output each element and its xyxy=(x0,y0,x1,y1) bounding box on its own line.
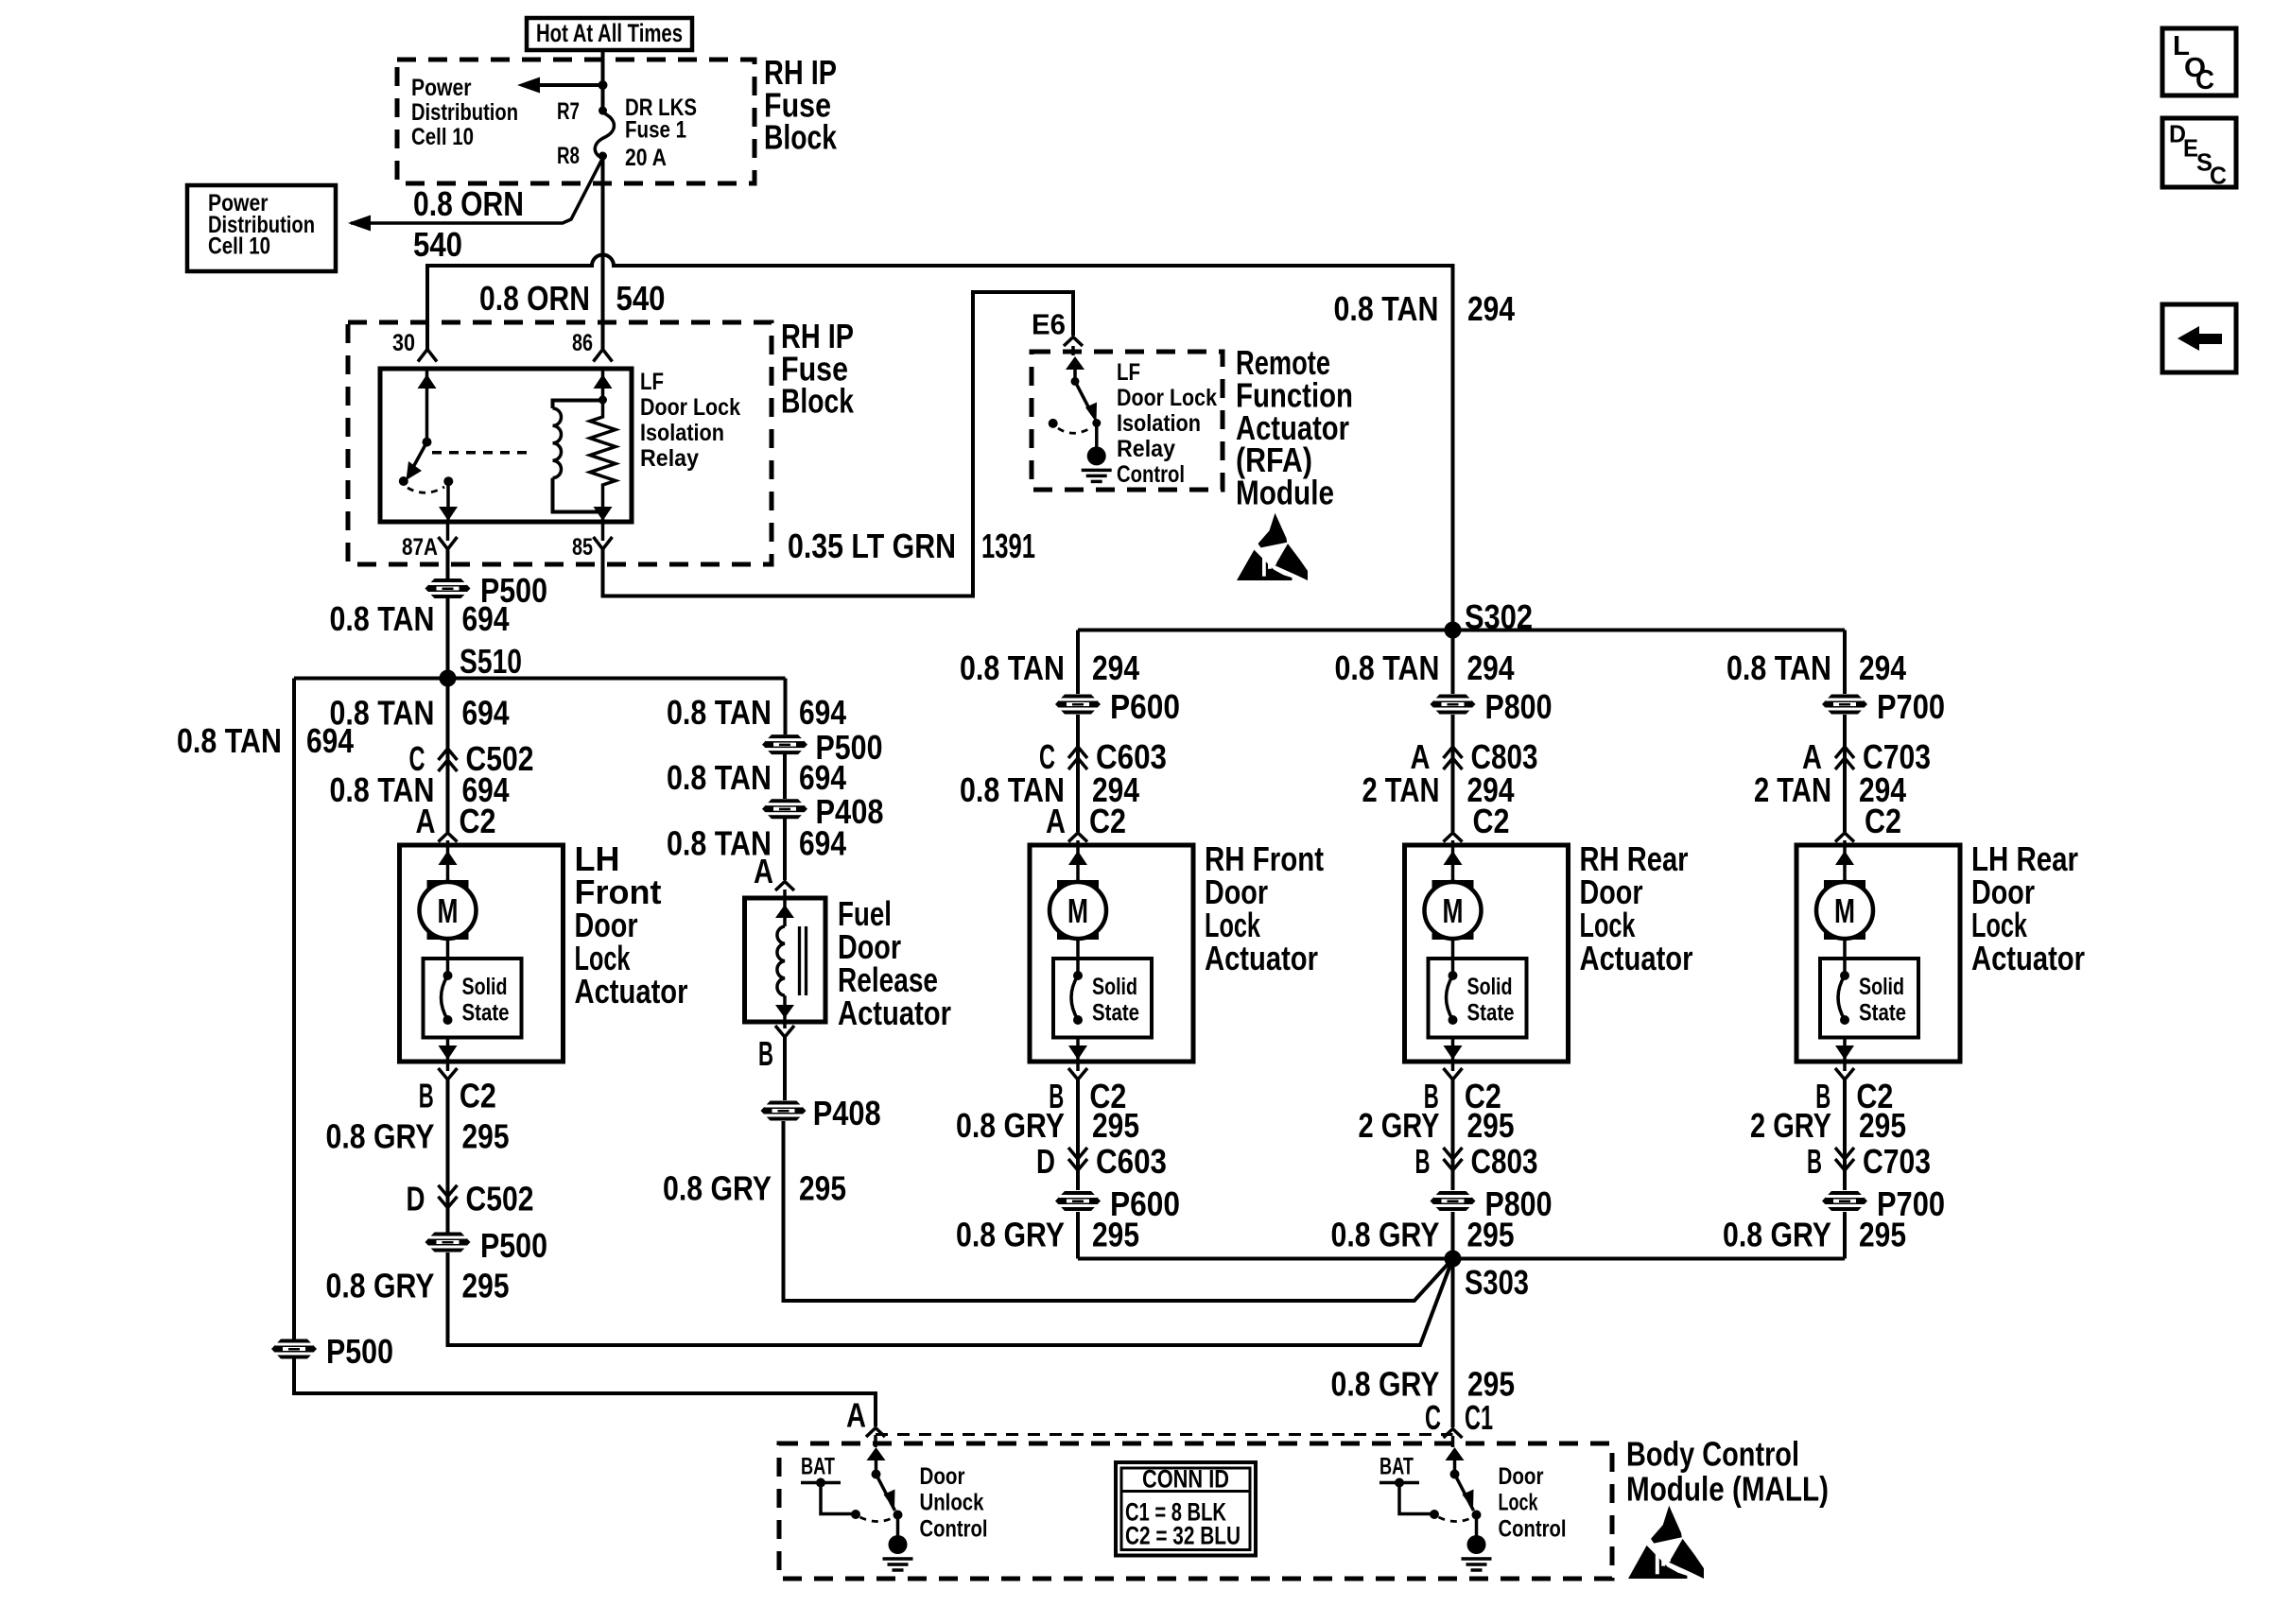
svg-text:M: M xyxy=(1443,891,1464,930)
wire out of actuator xyxy=(446,1037,450,1062)
svg-text:694: 694 xyxy=(462,599,510,638)
svg-text:294: 294 xyxy=(1092,648,1139,687)
actuator box RH Front Door Lock Actuator Door Lock Actuator xyxy=(1030,845,1193,1062)
pin A connector xyxy=(866,1428,885,1438)
svg-text:295: 295 xyxy=(1467,1106,1515,1145)
relay box LF Door Lock Isolation Relay xyxy=(380,369,632,522)
svg-text:Solid: Solid xyxy=(1467,974,1513,1000)
wire 0.8 GRY 295 to bus xyxy=(1451,1212,1455,1259)
svg-text:A: A xyxy=(416,802,436,840)
svg-text:694: 694 xyxy=(799,693,846,732)
wire 0.35 LT GRN 1391 relay pin 85 to RFA E6 xyxy=(603,292,1074,596)
svg-text:Hot At All Times: Hot At All Times xyxy=(536,19,683,47)
connector P700 xyxy=(1822,1191,1867,1211)
svg-text:Door Lock: Door Lock xyxy=(640,394,740,421)
svg-text:Control: Control xyxy=(1117,461,1185,488)
svg-text:0.8 TAN: 0.8 TAN xyxy=(177,721,282,760)
svg-text:0.8 TAN: 0.8 TAN xyxy=(960,648,1065,687)
solenoid core bar xyxy=(798,926,801,995)
switch Door Unlock Control xyxy=(867,1447,886,1460)
switch Door Lock Control xyxy=(1446,1447,1465,1460)
junction dot feed/PD-cell tap xyxy=(599,80,608,90)
ESD sensitive device symbol (RFA) xyxy=(1258,513,1288,548)
dashed box RH IP Fuse Block (relay) xyxy=(348,322,772,564)
svg-text:C: C xyxy=(2210,162,2227,190)
svg-text:0.8 GRY: 0.8 GRY xyxy=(326,1266,435,1304)
svg-text:Body Control: Body Control xyxy=(1626,1435,1799,1474)
svg-text:M: M xyxy=(1067,891,1088,930)
relay actuation dashed link xyxy=(432,451,533,455)
pin B connector (fuel door) xyxy=(775,1026,794,1037)
pin connector xyxy=(1068,833,1087,842)
DESC reference box xyxy=(2162,118,2236,187)
svg-text:C2: C2 xyxy=(1089,802,1126,840)
connector P500 xyxy=(425,1233,471,1253)
connector P500 (fuel door) xyxy=(762,734,807,754)
wire 0.8 GRY 295 from LH front actuator xyxy=(446,1080,450,1233)
svg-text:0.8 GRY: 0.8 GRY xyxy=(1331,1215,1440,1253)
svg-text:P500: P500 xyxy=(480,1226,547,1265)
relay switch blade xyxy=(412,442,427,469)
wire 0.8 GRY 295 from fuel door release xyxy=(783,1037,787,1100)
wire into actuator xyxy=(1843,845,1847,880)
svg-text:Distribution: Distribution xyxy=(411,99,518,126)
connector P408 xyxy=(761,1101,807,1121)
svg-text:0.8 TAN: 0.8 TAN xyxy=(1334,289,1439,328)
svg-text:0.8 ORN: 0.8 ORN xyxy=(413,184,524,223)
wire 0.8 TAN 694 to LH front actuator xyxy=(446,598,450,832)
svg-text:Actuator: Actuator xyxy=(1205,939,1318,977)
svg-text:694: 694 xyxy=(799,758,846,797)
svg-text:694: 694 xyxy=(799,824,846,863)
svg-text:2 GRY: 2 GRY xyxy=(1359,1106,1440,1145)
svg-text:P800: P800 xyxy=(1485,687,1553,726)
back arrow xyxy=(2178,326,2199,351)
svg-text:E6: E6 xyxy=(1032,307,1066,340)
pin B connector xyxy=(1068,1068,1087,1080)
svg-text:R8: R8 xyxy=(557,143,580,169)
svg-text:LF: LF xyxy=(640,369,664,395)
wire into actuator xyxy=(446,845,450,880)
wire 0.8 ORN 540 fuse to relay pin 86 xyxy=(601,156,605,349)
svg-text:0.35 LT GRN: 0.35 LT GRN xyxy=(788,527,956,565)
svg-text:294: 294 xyxy=(1467,648,1515,687)
dashed box RH IP Fuse Block (upper) xyxy=(397,60,755,183)
svg-text:B: B xyxy=(1415,1142,1431,1181)
svg-text:A: A xyxy=(846,1396,866,1435)
svg-text:Cell 10: Cell 10 xyxy=(411,124,474,150)
wire NO contact to pin 87A xyxy=(446,481,450,522)
svg-text:C2: C2 xyxy=(1473,802,1510,840)
svg-text:0.8 GRY: 0.8 GRY xyxy=(956,1215,1065,1253)
svg-text:M: M xyxy=(1834,891,1855,930)
wire 0.8 GRY 295 to bus xyxy=(1843,1212,1847,1259)
wire motor to solid state xyxy=(446,939,450,976)
wire motor to solid state xyxy=(1451,939,1455,976)
svg-text:B: B xyxy=(758,1034,773,1073)
pin connector xyxy=(1835,833,1854,842)
svg-text:P700: P700 xyxy=(1877,687,1945,726)
wire S510 bus xyxy=(294,677,786,681)
svg-text:Power: Power xyxy=(411,75,472,101)
wire relay to pin 87A xyxy=(446,522,450,541)
svg-text:State: State xyxy=(1092,1000,1139,1027)
svg-text:294: 294 xyxy=(1859,648,1906,687)
svg-text:Isolation: Isolation xyxy=(1117,410,1201,437)
svg-text:State: State xyxy=(1859,1000,1906,1027)
svg-text:P408: P408 xyxy=(813,1094,881,1132)
svg-text:1391: 1391 xyxy=(981,527,1035,565)
svg-text:LF: LF xyxy=(1117,359,1140,386)
svg-text:Door: Door xyxy=(920,1463,965,1490)
relay switch throw arc xyxy=(408,487,444,492)
splice S510 xyxy=(440,670,457,687)
svg-text:Block: Block xyxy=(764,118,838,157)
svg-text:D: D xyxy=(1036,1142,1055,1181)
pin C connector xyxy=(1444,1429,1463,1439)
svg-text:0.8 TAN: 0.8 TAN xyxy=(1335,648,1440,687)
RFA switch NC contact xyxy=(1049,419,1058,428)
wire S302 bus to connector xyxy=(1451,631,1455,695)
svg-text:A: A xyxy=(1046,802,1066,840)
relay NC contact xyxy=(399,476,408,486)
pin B connector xyxy=(439,1068,458,1080)
svg-text:Actuator: Actuator xyxy=(1580,939,1693,977)
svg-text:S510: S510 xyxy=(460,642,522,681)
wire relay to pin 85 xyxy=(601,522,605,541)
svg-text:C2 = 32 BLU: C2 = 32 BLU xyxy=(1125,1522,1241,1550)
connector P600 xyxy=(1055,695,1101,715)
svg-text:295: 295 xyxy=(462,1117,510,1156)
svg-text:295: 295 xyxy=(1092,1215,1139,1253)
svg-text:C1: C1 xyxy=(1465,1398,1493,1437)
actuator box RH Rear Door Lock Actuator Door Lock Actuator xyxy=(1405,845,1569,1062)
svg-text:Module (MALL): Module (MALL) xyxy=(1626,1470,1829,1509)
svg-text:294: 294 xyxy=(1467,289,1515,328)
wire S510 to fuel door release xyxy=(784,679,788,735)
svg-text:20 A: 20 A xyxy=(625,145,667,171)
svg-text:S302: S302 xyxy=(1465,597,1533,636)
connector P800 xyxy=(1431,1191,1476,1211)
svg-text:Control: Control xyxy=(1499,1515,1567,1542)
ground (BCM switch) xyxy=(889,1535,908,1554)
wire 0.8 GRY 295 S303 to BCM pin C xyxy=(1451,1259,1455,1428)
connector P500 (87A feed) xyxy=(425,579,471,598)
ground (RFA internal) xyxy=(1087,446,1106,465)
svg-text:295: 295 xyxy=(1092,1106,1139,1145)
svg-text:295: 295 xyxy=(1467,1215,1515,1253)
svg-text:Unlock: Unlock xyxy=(920,1490,984,1516)
svg-text:C2: C2 xyxy=(460,1076,496,1114)
svg-text:Solid: Solid xyxy=(1092,974,1137,1000)
wire out of actuator xyxy=(1843,1037,1847,1062)
svg-text:Cell 10: Cell 10 xyxy=(208,233,270,260)
solid state switch box xyxy=(1053,959,1152,1038)
svg-text:0.8 ORN: 0.8 ORN xyxy=(479,279,590,318)
wire S302 bus to connector xyxy=(1076,631,1080,695)
svg-text:C2: C2 xyxy=(460,802,496,840)
wire into actuator xyxy=(1076,845,1080,880)
label box Hot At All Times xyxy=(527,18,692,50)
connector C1 dashed boundary xyxy=(876,1433,1453,1436)
svg-text:State: State xyxy=(462,1000,510,1027)
svg-text:694: 694 xyxy=(306,721,354,760)
svg-text:C803: C803 xyxy=(1471,1142,1538,1181)
svg-text:Actuator: Actuator xyxy=(838,993,951,1032)
connector P800 xyxy=(1431,695,1476,715)
actuator box Fuel Door Release Actuator xyxy=(745,898,826,1022)
wire fuse feed from Hot At All Times xyxy=(601,50,605,111)
svg-text:2 TAN: 2 TAN xyxy=(1754,770,1831,809)
wire 0.8 GRY 295 bus S303 xyxy=(1078,1257,1845,1261)
svg-text:Control: Control xyxy=(920,1515,988,1542)
pin B connector xyxy=(1444,1068,1463,1080)
svg-text:Relay: Relay xyxy=(640,445,699,472)
dashed box Remote Function Actuator (RFA) Module xyxy=(1032,352,1223,490)
motor M xyxy=(1057,880,1099,894)
connector P500 (left branch) xyxy=(271,1339,317,1359)
box Power Distribution Cell 10 xyxy=(187,185,336,271)
fuse DR LKS Fuse 1 20 A xyxy=(599,107,607,115)
svg-text:295: 295 xyxy=(799,1168,846,1207)
svg-text:0.8 GRY: 0.8 GRY xyxy=(326,1117,435,1156)
wire S302 bus to connector xyxy=(1843,631,1847,695)
svg-text:C: C xyxy=(1425,1398,1441,1437)
svg-text:295: 295 xyxy=(1859,1106,1906,1145)
svg-text:295: 295 xyxy=(462,1266,510,1304)
relay switch common pole (pin 30) xyxy=(425,369,429,442)
svg-text:540: 540 xyxy=(413,225,462,264)
svg-text:B: B xyxy=(1807,1142,1822,1181)
svg-text:0.8 TAN: 0.8 TAN xyxy=(1726,648,1831,687)
wire pin30 to S302 with hop over fuse wire xyxy=(427,255,1453,631)
switch throw arc xyxy=(1439,1517,1473,1522)
svg-text:0.8 GRY: 0.8 GRY xyxy=(663,1168,772,1207)
svg-text:B: B xyxy=(419,1076,434,1114)
RFA relay control switch xyxy=(1066,356,1084,370)
svg-text:0.8 TAN: 0.8 TAN xyxy=(330,599,435,638)
wire into RFA module xyxy=(1071,346,1075,355)
svg-text:Actuator: Actuator xyxy=(575,972,688,1011)
arrowhead to Power Distribution Cell 10 xyxy=(517,78,540,94)
svg-text:Module: Module xyxy=(1236,474,1334,512)
relay NO contact (pin 87A) xyxy=(443,476,453,486)
fuel door release solenoid coil xyxy=(783,898,787,926)
connector P700 xyxy=(1822,695,1867,715)
svg-text:Isolation: Isolation xyxy=(640,420,724,446)
solenoid core bar xyxy=(805,926,807,995)
wire 0.8 ORN 540 to Power Distribution xyxy=(351,158,603,223)
svg-text:85: 85 xyxy=(572,534,593,561)
svg-text:Solid: Solid xyxy=(462,974,508,1000)
pin 85 connector xyxy=(594,537,613,549)
pin B connector xyxy=(1835,1068,1854,1080)
svg-text:0.8 TAN: 0.8 TAN xyxy=(667,693,772,732)
wire motor to solid state xyxy=(1843,939,1847,976)
svg-text:R7: R7 xyxy=(557,98,580,125)
svg-text:Actuator: Actuator xyxy=(1971,939,2085,977)
ground (BCM switch) xyxy=(1467,1535,1486,1554)
pin A connector xyxy=(439,833,458,842)
pin A connector xyxy=(775,882,794,891)
svg-text:540: 540 xyxy=(616,279,666,318)
svg-text:D: D xyxy=(407,1180,425,1218)
motor M xyxy=(1824,880,1865,894)
wire 0.8 GRY 295 to bus xyxy=(1076,1212,1080,1259)
svg-text:P500: P500 xyxy=(326,1332,393,1371)
svg-text:Fuse 1: Fuse 1 xyxy=(625,117,686,144)
splice S303 xyxy=(1445,1251,1462,1268)
wire into actuator xyxy=(1451,845,1455,880)
svg-text:CONN ID: CONN ID xyxy=(1142,1465,1229,1494)
svg-text:30: 30 xyxy=(392,330,415,356)
wire tap to Power Distribution (in fuse block) xyxy=(535,83,603,87)
svg-text:BAT: BAT xyxy=(1379,1453,1414,1479)
ESD sensitive device symbol (BCM) xyxy=(1651,1506,1682,1544)
motor M xyxy=(1432,880,1474,894)
wire out of actuator xyxy=(1451,1037,1455,1062)
RFA switch throw arc xyxy=(1058,427,1092,433)
svg-text:87A: 87A xyxy=(402,534,438,561)
pin E6 connector xyxy=(1064,337,1083,347)
svg-text:C502: C502 xyxy=(466,1180,534,1218)
relay coil suppression resistor xyxy=(601,369,605,406)
solid state switch box xyxy=(1820,959,1918,1038)
svg-text:0.8 TAN: 0.8 TAN xyxy=(667,758,772,797)
pin 86 connector xyxy=(594,350,613,362)
wire 0.8 GRY 295 to splice S303 xyxy=(784,1121,1453,1301)
svg-text:S303: S303 xyxy=(1465,1263,1529,1302)
svg-text:C603: C603 xyxy=(1096,1142,1167,1181)
pin 87A connector xyxy=(439,537,458,549)
svg-text:Block: Block xyxy=(781,382,855,421)
svg-text:C703: C703 xyxy=(1863,1142,1931,1181)
svg-text:0.8 GRY: 0.8 GRY xyxy=(956,1106,1065,1145)
svg-text:86: 86 xyxy=(572,330,593,356)
CONN ID table xyxy=(1116,1462,1256,1556)
actuator box LH Front Door Lock Actuator xyxy=(400,845,564,1062)
switch throw arc xyxy=(860,1517,894,1522)
svg-text:Door: Door xyxy=(1499,1463,1544,1490)
svg-text:Door Lock: Door Lock xyxy=(1117,385,1217,411)
relay coil xyxy=(553,401,603,409)
svg-text:Solid: Solid xyxy=(1859,974,1904,1000)
wire 0.8 GRY 295 to splice S303 xyxy=(448,1253,1453,1345)
connector P408 xyxy=(762,799,807,819)
svg-text:0.8 GRY: 0.8 GRY xyxy=(1331,1365,1440,1404)
wire 0.8 TAN 694 S510 to BCM pin A xyxy=(294,679,876,1427)
splice S302 xyxy=(1445,622,1462,639)
pin connector xyxy=(1444,833,1463,842)
svg-text:2 GRY: 2 GRY xyxy=(1750,1106,1831,1145)
svg-text:2 TAN: 2 TAN xyxy=(1362,770,1440,809)
motor M xyxy=(427,880,469,894)
back-arrow box xyxy=(2162,304,2236,372)
wire to RFA ground xyxy=(1095,423,1099,449)
connector P600 xyxy=(1055,1191,1101,1211)
svg-text:P600: P600 xyxy=(1110,687,1180,726)
arrowhead to Power Distribution box xyxy=(348,216,371,232)
svg-text:A: A xyxy=(754,852,773,890)
wire out of actuator xyxy=(1076,1037,1080,1062)
svg-text:0.8 GRY: 0.8 GRY xyxy=(1723,1215,1831,1253)
pin 30 connector xyxy=(418,350,437,362)
svg-text:M: M xyxy=(438,891,459,930)
svg-text:C: C xyxy=(2195,65,2214,95)
svg-text:Lock: Lock xyxy=(1499,1490,1538,1516)
svg-text:694: 694 xyxy=(462,694,510,733)
svg-text:295: 295 xyxy=(1859,1215,1906,1253)
actuator box LH Rear Door Lock Actuator Door Lock Actuator xyxy=(1796,845,1960,1062)
svg-text:Relay: Relay xyxy=(1117,436,1175,462)
svg-text:C2: C2 xyxy=(1865,802,1901,840)
svg-text:State: State xyxy=(1467,1000,1515,1027)
wire 0.8 TAN 294 bus S302 xyxy=(1078,629,1845,632)
wire motor to solid state xyxy=(1076,939,1080,976)
dashed box Body Control Module xyxy=(779,1443,1612,1579)
svg-text:BAT: BAT xyxy=(801,1453,835,1479)
solid state switch box xyxy=(1429,959,1527,1038)
solid state switch box xyxy=(424,959,522,1038)
LOC reference box xyxy=(2162,28,2236,95)
